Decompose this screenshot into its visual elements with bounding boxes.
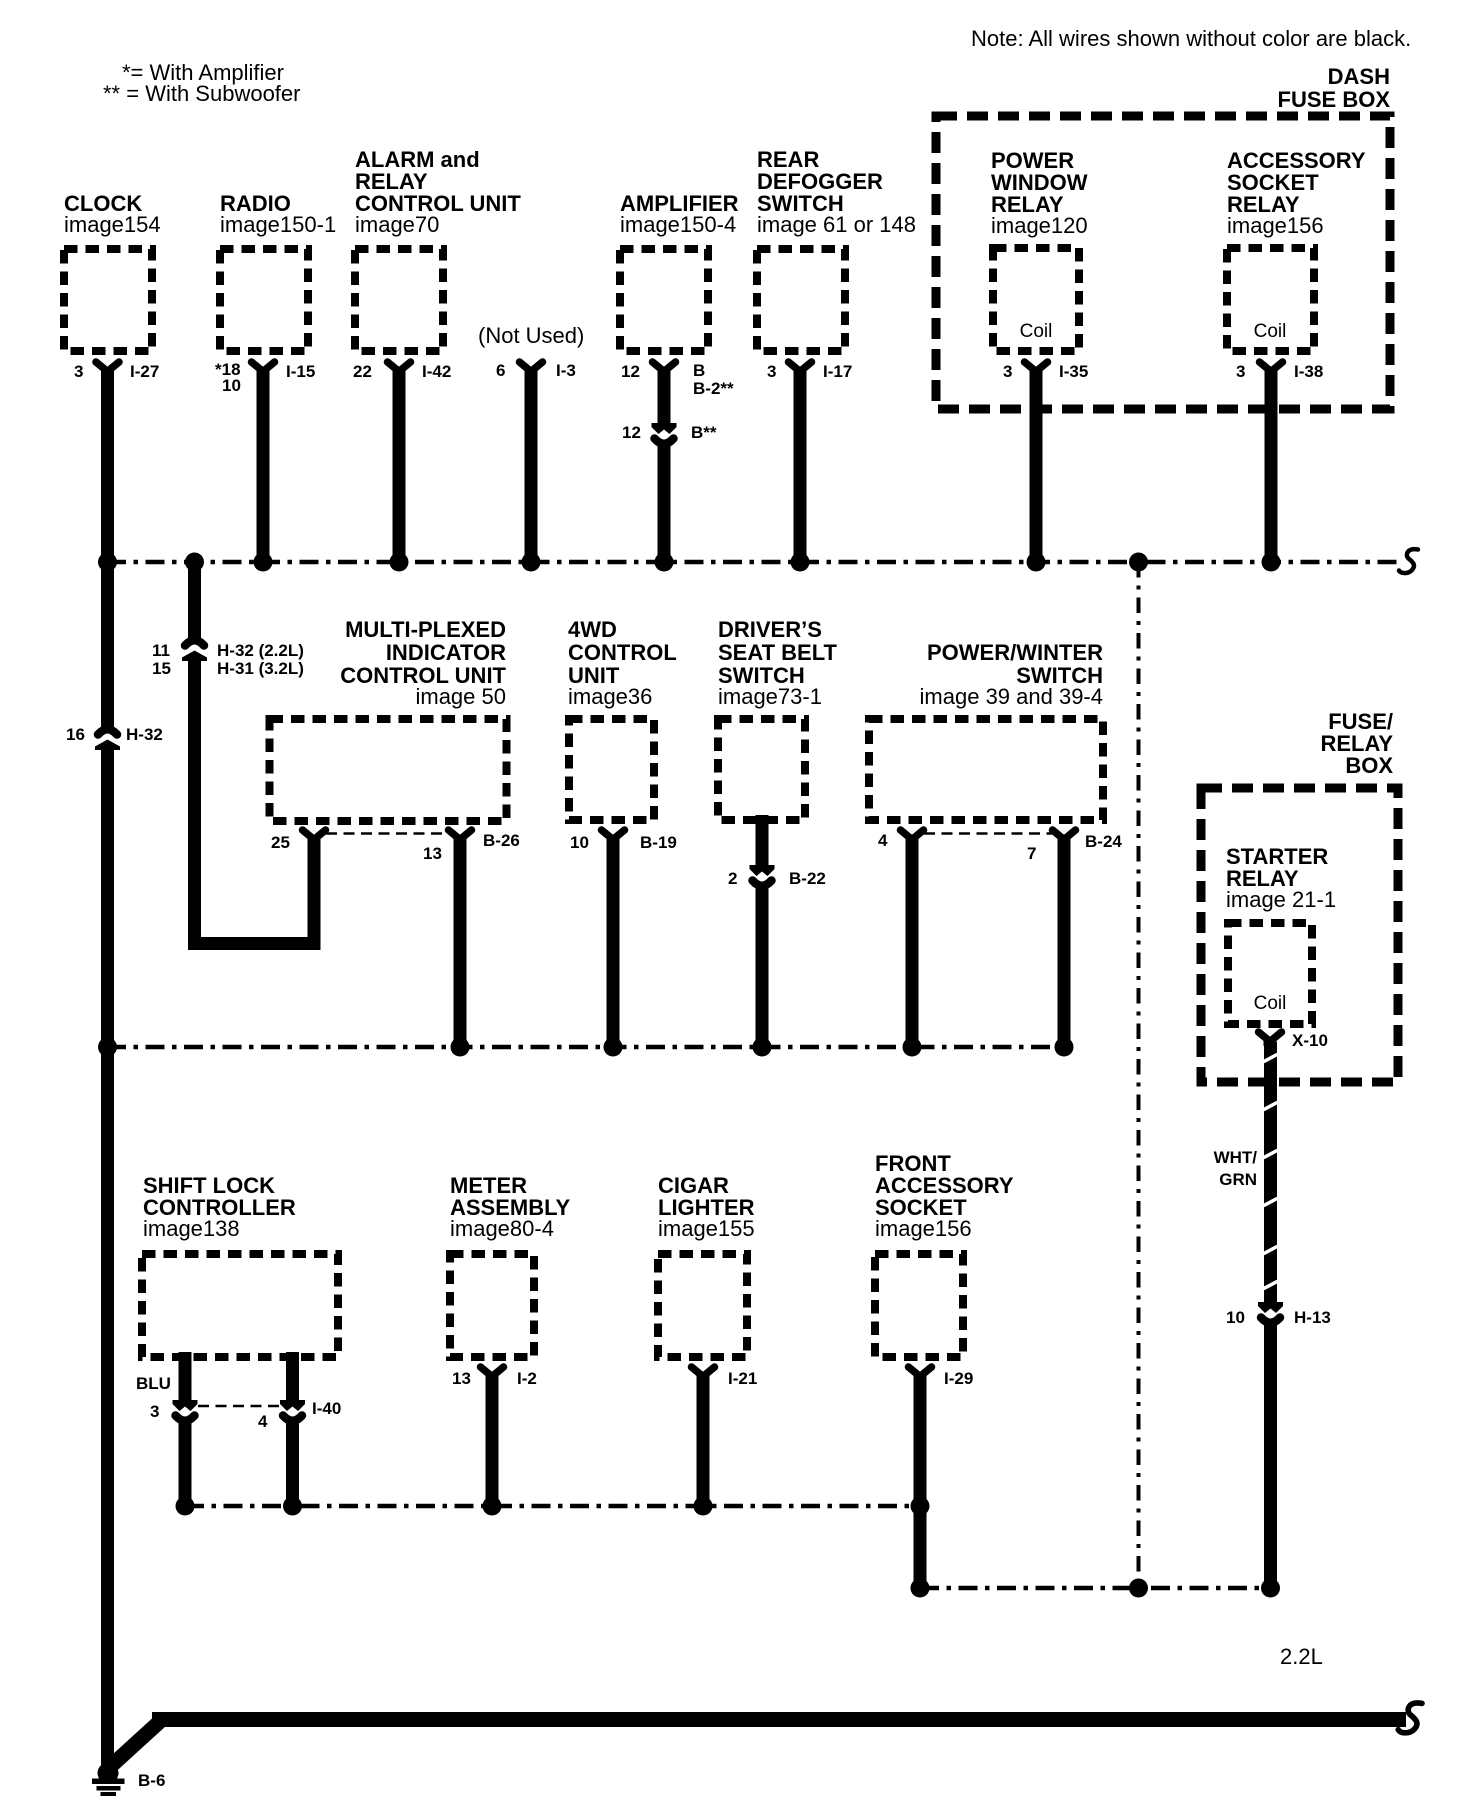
component MULTI-PLEXED INDICATOR CONTROL UNIT (image 50) dashed box and title [270,617,507,821]
wire pin 4 down to middle bus [906,842,919,1047]
svg-text:I-27: I-27 [130,362,159,381]
svg-text:H-31 (3.2L): H-31 (3.2L) [217,659,304,678]
component 4WD CONTROL UNIT (image36) dashed box and title [568,617,677,820]
connector pin 13 B-26 of MPX unit [423,830,520,863]
junction dot on lower right bus at front socket drop [911,1579,930,1598]
component CLOCK (image154) dashed box and title [64,191,161,351]
svg-text:image150-1: image150-1 [220,212,336,237]
svg-text:(Not Used): (Not Used) [478,323,584,348]
connector pin 12 B / B-2** of AMPLIFIER [621,361,734,398]
svg-text:image156: image156 [875,1216,972,1241]
svg-text:I-29: I-29 [944,1369,973,1388]
svg-text:X-10: X-10 [1292,1031,1328,1050]
ground B-6 symbol [92,1763,125,1797]
junction dot on bottom bus at meter [483,1497,502,1516]
svg-text:11: 11 [152,641,170,660]
connector pin 13 I-2 of METER ASSEMBLY [452,1367,537,1388]
connector I-29 of FRONT ACCESSORY SOCKET [909,1367,974,1388]
wire ACCESSORY SOCKET RELAY pin to bus [1265,371,1278,562]
svg-text:BOX: BOX [1345,753,1393,778]
junction dot on middle bus at seat belt [753,1038,772,1057]
svg-text:4: 4 [258,1412,268,1431]
component CIGAR LIGHTER (image155) dashed box and title [658,1173,755,1357]
continuation squiggle at right end of bottom wire [1398,1703,1422,1733]
wire B-22 connector down to middle bus [756,885,769,1047]
svg-text:2.2L: 2.2L [1280,1644,1323,1669]
svg-text:DRIVER’S: DRIVER’S [718,617,822,642]
svg-text:FUSE BOX: FUSE BOX [1278,87,1391,112]
svg-text:BLU: BLU [136,1374,171,1393]
svg-text:10: 10 [570,833,589,852]
thin dashed link between pins 4 and 7 [924,832,1052,835]
svg-text:Coil: Coil [1254,321,1287,342]
svg-text:image138: image138 [143,1216,240,1241]
junction dot on bottom bus at cigar [694,1497,713,1516]
wire WHT/GRN from X-10 down (striped) [1264,1042,1278,1305]
svg-text:I-42: I-42 [422,362,451,381]
svg-text:15: 15 [152,659,171,678]
svg-text:3: 3 [767,362,776,381]
svg-text:B-22: B-22 [789,869,826,888]
svg-text:10: 10 [1226,1308,1245,1327]
svg-text:4: 4 [878,831,888,850]
svg-text:CONTROL: CONTROL [568,640,677,665]
(Not Used) connector 6 I-3 [478,323,584,380]
relay POWER WINDOW RELAY (image120) coil box [991,148,1088,351]
svg-text:12: 12 [621,362,640,381]
wire RADIO pin to bus [257,371,270,562]
junction dot on top bus at clock [98,553,117,572]
svg-text:B-26: B-26 [483,831,520,850]
component SHIFT LOCK CONTROLLER (image138) dashed box and title [142,1173,338,1357]
wire clock circuit down to ground B-6 [101,746,114,1765]
svg-text:3: 3 [150,1402,159,1421]
svg-text:13: 13 [423,844,442,863]
svg-text:INDICATOR: INDICATOR [386,640,506,665]
junction dot on middle bus at P/W pin4 [903,1038,922,1057]
in-line connector 10 H-13 [1226,1302,1331,1327]
in-line connector 16 H-32 on clock wire [66,725,163,750]
connector I-21 of CIGAR LIGHTER [692,1367,758,1388]
wire pin 7 down to middle bus [1058,842,1071,1047]
junction dot on bottom bus at front socket [911,1497,930,1516]
svg-text:image36: image36 [568,684,652,709]
svg-text:12: 12 [622,423,641,442]
in-line connector 3 (I-40) left [150,1400,198,1421]
svg-text:image120: image120 [991,213,1088,238]
wire 4WD unit down to middle bus [607,842,620,1047]
svg-text:B-19: B-19 [640,833,677,852]
svg-text:10: 10 [222,376,241,395]
connector pin 7 B-24 of POWER/WINTER SWITCH [1027,830,1122,863]
component AMPLIFIER (image150-4) dashed box and title [620,191,739,351]
bus: top dash-dot distribution line [107,560,1404,565]
relay STARTER RELAY (image 21-1) coil box [1226,844,1336,1024]
wire ALARM unit pin to bus [393,371,406,562]
svg-text:I-3: I-3 [556,361,576,380]
junction dot on middle bus at P/W pin7 [1055,1038,1074,1057]
wire AMPLIFIER pin to in-line connector [658,371,671,426]
ground label B-6 [138,1771,165,1790]
junction dot on top bus at acc socket relay [1262,553,1281,572]
in-line connector 2 B-22 [728,865,826,888]
component METER ASSEMBLY (image80-4) dashed box and title [450,1173,571,1357]
component ALARM and RELAY CONTROL UNIT (image70) dashed box and title [355,147,521,351]
connector pin 4 of POWER/WINTER SWITCH [878,830,924,850]
wire from H-32/H-31 connector down [188,657,201,950]
svg-text:6: 6 [496,361,505,380]
svg-text:image73-1: image73-1 [718,684,822,709]
junction dot on top bus at amplifier [655,553,674,572]
thin dashed link between I-40 connectors [198,1405,280,1408]
svg-text:POWER/WINTER: POWER/WINTER [927,640,1103,665]
engine label 2.2L [1280,1644,1323,1669]
junction dot on top bus at branch [185,553,204,572]
svg-text:I-17: I-17 [823,362,852,381]
svg-text:B-6: B-6 [138,1771,165,1790]
svg-text:image150-4: image150-4 [620,212,736,237]
wire REAR DEFOGGER SWITCH pin to bus [794,371,807,562]
svg-text:B**: B** [691,423,717,442]
relay ACCESSORY SOCKET RELAY (image156) coil box [1227,148,1366,351]
svg-text:SEAT BELT: SEAT BELT [718,640,838,665]
FUSE/RELAY BOX enclosure [1201,709,1398,1082]
dash-dot vertical link line from top bus down to lower right bus [1137,562,1141,1588]
svg-text:H-32: H-32 [126,725,163,744]
note: wire color note [971,26,1411,51]
svg-text:GRN: GRN [1219,1170,1257,1189]
svg-text:image 61 or 148: image 61 or 148 [757,212,916,237]
bus: bottom dashed distribution line [185,1504,920,1509]
DASH FUSE BOX enclosure [936,64,1390,409]
wire CLOCK pin 3 down to bus (upper segment) [101,371,114,730]
wire vertical rise to MPX pin 25 [308,842,321,950]
junction dot on lower right bus at vertical link [1129,1579,1148,1598]
svg-text:image 50: image 50 [415,684,506,709]
svg-text:22: 22 [353,362,372,381]
junction dot on top bus at defogger [791,553,810,572]
junction dot on top bus at pwr window relay [1027,553,1046,572]
svg-text:3: 3 [1236,362,1245,381]
svg-text:image80-4: image80-4 [450,1216,554,1241]
component REAR DEFOGGER SWITCH (image 61 or 148) dashed box and title [757,147,916,351]
svg-text:image 21-1: image 21-1 [1226,887,1336,912]
bus: lower right dash-dot link line [920,1586,1271,1591]
svg-text:16: 16 [66,725,85,744]
svg-text:I-15: I-15 [286,362,315,381]
junction dot on top bus at dash-dot drop [1129,553,1148,572]
wire seat belt switch to in-line connector [756,815,769,868]
svg-text:Coil: Coil [1020,321,1053,342]
in-line connector 12 B** on amplifier wire [622,423,717,444]
wire front accessory socket down through bottom bus [914,1379,927,1588]
wire (Not Used) connector to bus [525,371,538,562]
wire MPX pin 13 down to middle bus [454,842,467,1047]
svg-text:7: 7 [1027,844,1036,863]
thin dashed link between MPX pins 25 and 13 [326,832,448,835]
junction dot on lower right bus at starter relay wire [1261,1579,1280,1598]
svg-text:I-35: I-35 [1059,362,1088,381]
wire right I-40 to bottom bus [286,1420,299,1506]
junction dot on middle bus at MPX pin13 [451,1038,470,1057]
svg-text:image 39 and 39-4: image 39 and 39-4 [920,684,1103,709]
wire cigar lighter to bottom bus [697,1379,710,1506]
junction dot on top bus at alarm [390,553,409,572]
wire POWER WINDOW RELAY pin to bus [1030,371,1043,562]
junction dot on top bus at radio [254,553,273,572]
connector pin 10 B-19 of 4WD unit [570,830,677,852]
connector X-10 of STARTER RELAY [1259,1031,1328,1050]
component FRONT ACCESSORY SOCKET (image156) dashed box and title [875,1151,1014,1357]
wire meter assembly to bottom bus [486,1379,499,1506]
connector pin 3 I-17 of REAR DEFOGGER SWITCH [767,362,852,381]
wire diagonal to ground point [111,1720,162,1767]
svg-text:image155: image155 [658,1216,755,1241]
wire shift lock pin 3 (BLU) down to connector [179,1352,192,1403]
continuation squiggle at right end of top bus [1399,549,1418,573]
svg-text:3: 3 [1003,362,1012,381]
wire branch from bus down to H-32/H-31 connector [188,562,201,641]
wire shift lock pin 4 down to connector [286,1352,299,1403]
wire H-13 down to lower right bus [1264,1322,1277,1588]
component POWER/WINTER SWITCH (image 39 and 39-4) dashed box and title [869,640,1103,820]
legend: asterisk definitions [103,60,300,106]
svg-text:2: 2 [728,869,737,888]
svg-text:4WD: 4WD [568,617,617,642]
svg-text:13: 13 [452,1369,471,1388]
connector pin 22 I-42 of ALARM unit [353,362,451,381]
wire left I-40 to bottom bus [179,1420,192,1506]
svg-text:I-21: I-21 [728,1369,757,1388]
connector pin 3 I-38 of ACCESSORY SOCKET RELAY [1236,362,1323,381]
svg-text:25: 25 [271,833,290,852]
junction dot on bottom bus at shift lock 3 [176,1497,195,1516]
svg-text:H-13: H-13 [1294,1308,1331,1327]
junction dot on middle bus at 4WD [604,1038,623,1057]
connector pin 3 I-27 of CLOCK [74,362,159,381]
junction dot on top bus at notused [522,553,541,572]
svg-text:I-40: I-40 [312,1399,341,1418]
connector pin 25 of MPX unit [271,830,326,852]
component RADIO (image150-1) dashed box and title [220,191,336,351]
svg-text:image156: image156 [1227,213,1324,238]
wire color label BLU [136,1374,171,1393]
svg-text:B-24: B-24 [1085,832,1122,851]
wire color label WHT/GRN [1214,1148,1258,1189]
svg-text:image70: image70 [355,212,439,237]
svg-text:H-32 (2.2L): H-32 (2.2L) [217,641,304,660]
connector pin 3 I-35 of POWER WINDOW RELAY [1003,362,1088,381]
wire thick bottom ground bus [152,1712,1406,1727]
svg-text:B-2**: B-2** [693,379,734,398]
junction dot on bottom bus at shift lock 4 [283,1497,302,1516]
in-line connector 4 I-40 right [258,1399,341,1431]
svg-text:MULTI-PLEXED: MULTI-PLEXED [345,617,506,642]
svg-text:DASH: DASH [1328,64,1390,89]
wire horizontal jog to MPX pin 25 [188,937,321,950]
svg-text:WHT/: WHT/ [1214,1148,1258,1167]
svg-text:image154: image154 [64,212,161,237]
svg-text:3: 3 [74,362,83,381]
connector pin *18/10 I-15 of RADIO [215,360,315,395]
svg-text:** = With Subwoofer: ** = With Subwoofer [103,81,300,106]
wire amplifier in-line connector to bus [658,443,671,562]
junction dot on middle bus at clock wire [98,1038,117,1057]
svg-text:Coil: Coil [1254,993,1287,1014]
svg-text:Note: All wires shown without: Note: All wires shown without color are … [971,26,1411,51]
component DRIVER'S SEAT BELT SWITCH (image73-1) dashed box and title [718,617,838,820]
in-line connector 11/15 H-32 (2.2L) H-31 (3.2L) [152,640,304,678]
svg-text:B: B [693,361,705,380]
bus: middle dash-dot distribution line [107,1045,1064,1050]
svg-text:I-38: I-38 [1294,362,1323,381]
svg-text:I-2: I-2 [517,1369,537,1388]
